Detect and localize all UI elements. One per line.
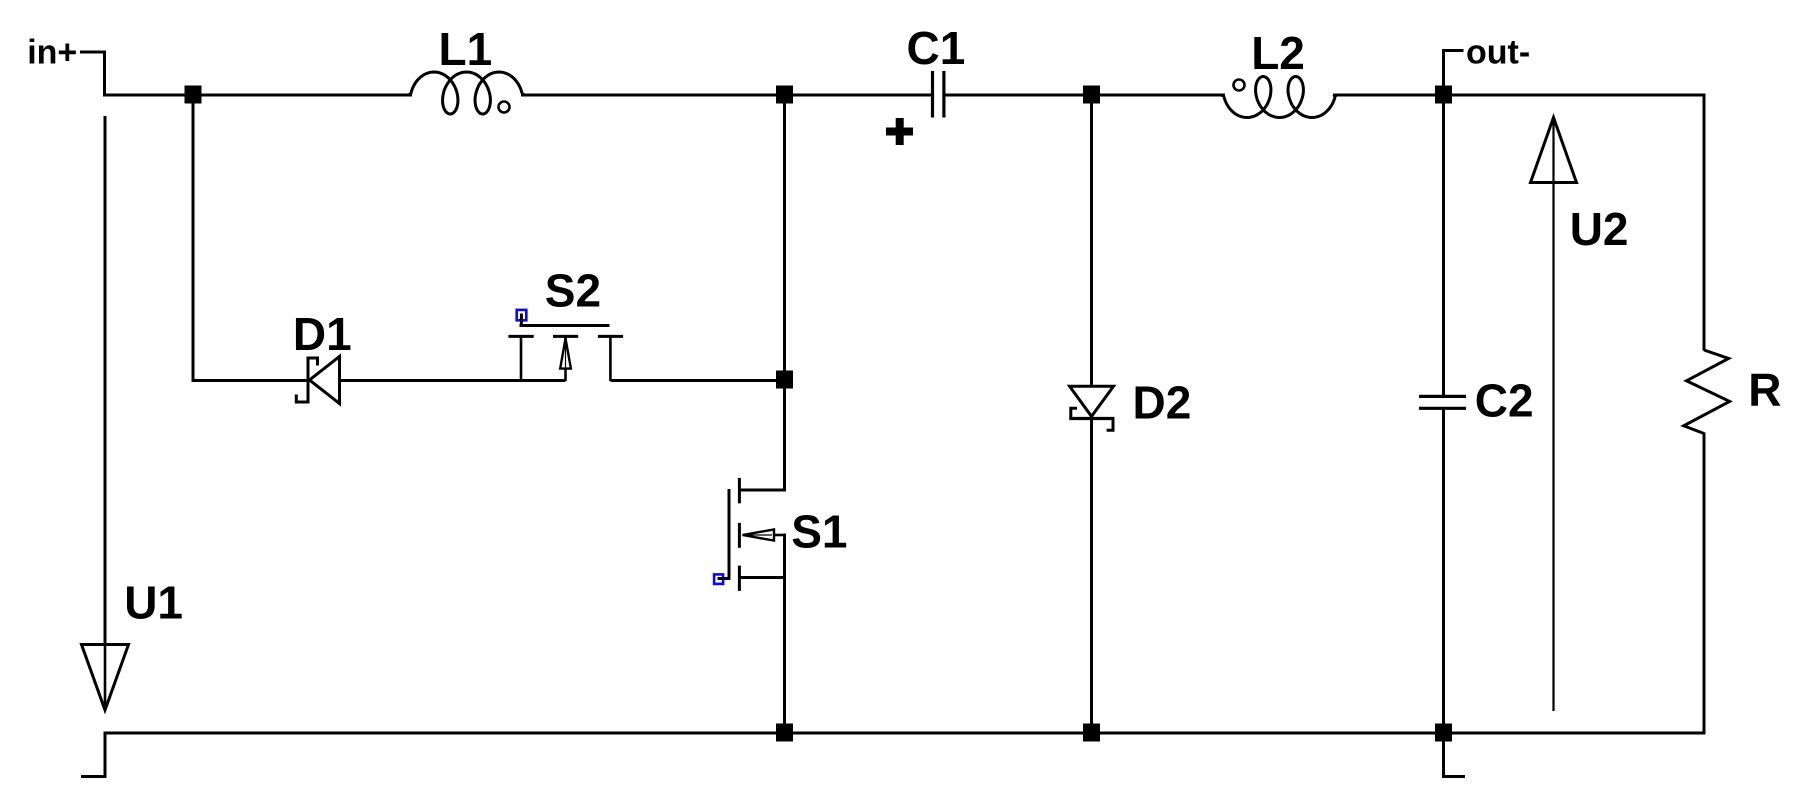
node junction bottom C2 xyxy=(1435,724,1452,742)
diode D1 cathode bar xyxy=(307,357,310,404)
svg-text:L1: L1 xyxy=(439,23,493,75)
inductor L2 polarity dot xyxy=(1234,80,1245,91)
mosfet S1 channel plate drain xyxy=(738,478,741,503)
wire right rail lower (R to bottom corner) xyxy=(1703,433,1706,735)
mosfet S1 gate terminal square (blue) xyxy=(714,574,723,584)
source U1 arrow line through xyxy=(104,644,107,710)
wire top rail segment D (L2 to right corner) xyxy=(1333,94,1706,97)
wire in+ port lead horizontal xyxy=(80,51,106,54)
mosfet S1 gate bar xyxy=(728,489,731,579)
diode D1 bar top hook xyxy=(308,358,318,366)
mosfet S2 body arrow (up) xyxy=(560,339,571,369)
diode D2 bar right hook xyxy=(1107,419,1113,431)
mosfet S2 gate lead into square xyxy=(520,314,523,328)
wire D1 cathode to S2 source xyxy=(339,379,566,382)
wire top rail segment B (L1 to C1) xyxy=(521,94,932,97)
resistor R zigzag xyxy=(1684,350,1730,434)
wire in+ port lead vertical xyxy=(103,51,106,97)
capacitor C1 right plate xyxy=(942,71,945,118)
capacitor C2 top plate xyxy=(1419,395,1466,398)
svg-text:U1: U1 xyxy=(124,576,183,628)
svg-text:C1: C1 xyxy=(907,22,966,74)
mosfet S1 channel plate body xyxy=(738,523,741,548)
voltage arrow U2 head (up) xyxy=(1531,118,1577,183)
mosfet S2 body lead xyxy=(564,336,567,381)
wire node B vertical (top rail to S1 drain) xyxy=(783,95,786,492)
mosfet S1 channel plate source xyxy=(738,566,741,591)
capacitor C1 left plate xyxy=(931,71,934,118)
wire bottom-left port stub vertical xyxy=(104,732,107,778)
wire out- port lead horizontal xyxy=(1444,49,1464,52)
mosfet S2 channel plate 3 xyxy=(598,335,623,338)
wire top rail segment C (C1 to L2) xyxy=(945,94,1226,97)
inductor L2 coil xyxy=(1221,77,1337,118)
wire D1 anode horizontal (from J1 branch) xyxy=(192,379,308,382)
svg-text:D2: D2 xyxy=(1133,376,1192,428)
wire S2 drain to node B xyxy=(610,379,778,382)
diode D1 bar bottom hook xyxy=(296,395,308,403)
mosfet S2 source lead xyxy=(520,336,523,381)
node junction top-left xyxy=(185,86,202,104)
inductor L1 coil xyxy=(408,72,525,114)
wire S1 source to bottom rail xyxy=(783,534,786,734)
mosfet S1 drain lead horizontal xyxy=(740,489,787,492)
svg-text:R: R xyxy=(1748,363,1781,415)
node junction top D2 xyxy=(1083,86,1100,104)
inductor L1 polarity dot xyxy=(499,102,510,113)
svg-text:U2: U2 xyxy=(1570,203,1629,255)
wire right rail upper (top corner to R) xyxy=(1703,94,1706,351)
mosfet S1 gate lead into square xyxy=(718,577,731,580)
wire U1 source branch vertical xyxy=(104,116,107,709)
node junction mid (S1 drain / S2 drain) xyxy=(776,371,793,389)
mosfet S2 body arrow inner line xyxy=(565,340,567,368)
source U1 arrowhead (down) xyxy=(82,645,129,711)
diode D2 triangle xyxy=(1070,386,1114,416)
svg-text:L2: L2 xyxy=(1251,27,1305,79)
wire node J1 to D1 vertical xyxy=(192,95,195,381)
mosfet S1 source lead horizontal xyxy=(740,576,787,579)
diode D2 bar left hook xyxy=(1071,408,1077,418)
wire bottom-right port stub vertical xyxy=(1442,733,1445,777)
svg-text:D1: D1 xyxy=(293,308,352,360)
mosfet S2 channel plate 2 xyxy=(553,335,578,338)
wire bottom rail xyxy=(104,732,1706,735)
mosfet S2 gate terminal square (blue) xyxy=(517,310,527,320)
svg-text:C2: C2 xyxy=(1475,375,1534,427)
mosfet S1 body lead vertical xyxy=(783,535,786,578)
mosfet S2 channel plate 1 xyxy=(508,335,533,338)
svg-text:S2: S2 xyxy=(545,265,601,317)
capacitor C1 plus polarity mark xyxy=(886,118,913,145)
voltage arrow U2 line xyxy=(1552,120,1554,711)
node junction bottom S1 xyxy=(776,724,793,742)
mosfet S1 body lead horizontal xyxy=(773,534,786,537)
diode D2 cathode bar xyxy=(1069,417,1114,420)
wire C2 branch vertical upper xyxy=(1442,95,1445,396)
node junction top out xyxy=(1435,86,1452,104)
wire D2 branch vertical upper xyxy=(1090,95,1093,387)
mosfet S1 body arrow (left) xyxy=(743,529,775,540)
wire bottom-left port stub horizontal xyxy=(81,775,107,778)
svg-text:out-: out- xyxy=(1466,33,1530,71)
wire D2 branch vertical lower xyxy=(1090,417,1093,733)
wire out- port lead vertical xyxy=(1442,49,1445,95)
capacitor C2 bottom plate xyxy=(1419,407,1466,410)
svg-text:in+: in+ xyxy=(27,34,77,72)
mosfet S2 gate bar xyxy=(520,324,610,327)
wire bottom-right port stub horizontal xyxy=(1442,775,1465,778)
node junction bottom D2 xyxy=(1083,724,1100,742)
mosfet S1 body arrow inner line xyxy=(744,534,772,536)
wire top rail segment A (in+ corner to L1) xyxy=(104,94,413,97)
mosfet S2 drain lead xyxy=(609,336,612,381)
svg-text:S1: S1 xyxy=(791,506,847,558)
node junction top-mid xyxy=(776,86,793,104)
wire C2 branch vertical lower xyxy=(1442,410,1445,734)
diode D1 triangle xyxy=(310,357,340,404)
